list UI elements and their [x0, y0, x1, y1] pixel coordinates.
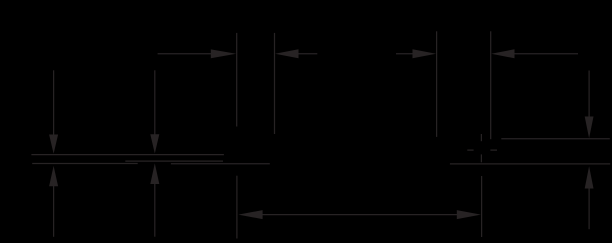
- wire dimension tail a4: [514, 53, 579, 55]
- arrowhead t1 up: [49, 166, 58, 186]
- wire right upper extension line L5: [501, 138, 610, 140]
- wire right dimension line lower v2: [588, 188, 590, 230]
- wire thickness dim t1 upper: [53, 70, 55, 135]
- wire dimension tail a2: [298, 53, 318, 55]
- wire right dimension line upper v1: [588, 71, 590, 120]
- wire dimension tail a3: [396, 53, 414, 55]
- wire thickness dim t2 lower: [154, 183, 156, 237]
- wire thickness dim t2 upper: [154, 70, 156, 135]
- arrowhead t2 up: [150, 163, 159, 184]
- wire extension line C: [436, 31, 438, 137]
- wire extension line A lower: [236, 176, 238, 239]
- arrowhead t1 down: [49, 135, 58, 154]
- arrowhead t2 down: [150, 134, 159, 153]
- arrowhead bottom dim right: [457, 210, 481, 219]
- arrowhead a1 right: [211, 49, 236, 58]
- wire tape bottom edge right segment L3b: [171, 163, 270, 165]
- arrowhead v2 up: [585, 166, 594, 188]
- node center mark horizontal dash right: [490, 149, 497, 151]
- wire bottom dimension line: [262, 214, 458, 216]
- node center mark vertical dash lower: [480, 154, 482, 162]
- arrowhead a4 left: [491, 49, 514, 58]
- wire right lower extension line L4: [450, 163, 610, 165]
- node center mark horizontal dash left: [467, 149, 473, 151]
- wire thickness dim t1 lower: [53, 185, 55, 237]
- wire dimension tail a1: [158, 53, 213, 55]
- arrowhead bottom dim left: [238, 210, 262, 219]
- wire extension line D: [490, 31, 492, 139]
- wire tape bottom edge left segment L3a: [32, 163, 138, 165]
- arrowhead v1 down: [585, 117, 594, 139]
- wire extension line A upper: [236, 33, 238, 127]
- wire top tape upper edge L1: [31, 154, 224, 156]
- wire lower tape upper edge L2: [125, 160, 223, 162]
- node center mark vertical dash upper: [480, 134, 482, 141]
- wire extension line E below center mark: [481, 176, 483, 237]
- arrowhead a2 left: [275, 49, 299, 58]
- arrowhead a3 right: [413, 49, 437, 58]
- wire extension line B: [274, 33, 276, 134]
